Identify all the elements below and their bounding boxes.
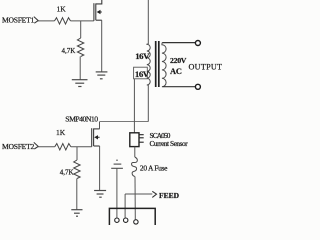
wire source2 down bbox=[99, 146, 101, 190]
wire R1 to gate bbox=[71, 20, 94, 22]
svg-text:FEED: FEED bbox=[159, 191, 180, 200]
input arrow MOSFET1 bbox=[34, 17, 38, 24]
svg-text:220V: 220V bbox=[170, 56, 187, 65]
wire fuse to connector bbox=[134, 177, 136, 220]
ground source1 bbox=[96, 72, 108, 79]
svg-text:SMP40N10: SMP40N10 bbox=[65, 115, 98, 124]
svg-text:MOSFET2: MOSFET2 bbox=[2, 142, 34, 151]
transformer core bbox=[155, 41, 157, 87]
terminal output bottom bbox=[195, 84, 200, 89]
terminal J1-2 bbox=[124, 218, 128, 222]
transformer T1 primary winding bbox=[147, 44, 150, 85]
wire gate2 bbox=[38, 146, 55, 148]
wire R4 to ground bbox=[76, 179, 78, 210]
fuse F1 bbox=[132, 157, 138, 177]
current sensor U2 SCA050 bbox=[130, 133, 139, 147]
svg-text:4,7K: 4,7K bbox=[60, 168, 74, 176]
wire junction to R2 bbox=[80, 21, 82, 38]
svg-text:1K: 1K bbox=[56, 128, 66, 137]
transformer T1 secondary winding bbox=[162, 43, 166, 87]
resistor R3 1K bbox=[55, 144, 71, 150]
resistor R2 4.7K bbox=[77, 38, 83, 57]
ground under R4 bbox=[71, 210, 82, 217]
transistor MOSFET1 bbox=[94, 0, 102, 21]
resistor R1 1K bbox=[55, 18, 71, 24]
ground source2 bbox=[94, 191, 106, 198]
wire transformer primary bottom to bus bbox=[147, 85, 149, 122]
wire R3 to gate bbox=[71, 146, 92, 148]
wire R2 to ground bbox=[79, 57, 81, 80]
wire gate1 bbox=[38, 20, 55, 22]
wire source1 down bbox=[101, 20, 103, 71]
connector J1 bbox=[109, 208, 155, 225]
ground under R2 bbox=[72, 80, 88, 87]
svg-text:20 A Fuse: 20 A Fuse bbox=[140, 164, 168, 173]
terminal output top bbox=[195, 41, 200, 46]
node FEED leader bbox=[125, 193, 152, 195]
svg-text:1K: 1K bbox=[57, 5, 67, 14]
svg-text:MOSFET1: MOSFET1 bbox=[2, 15, 34, 24]
svg-text:Current Sensor: Current Sensor bbox=[150, 139, 189, 148]
terminal J1-1 bbox=[115, 218, 119, 222]
wire transformer primary top feed bbox=[147, 0, 149, 44]
wire FEED down to connector bbox=[124, 194, 126, 218]
svg-text:16V: 16V bbox=[135, 69, 150, 79]
wire junction2 to R4 bbox=[76, 147, 78, 160]
ground (inverted, above connector) bbox=[111, 160, 123, 168]
svg-text:4,7K: 4,7K bbox=[62, 47, 76, 55]
resistor R4 4.7K bbox=[74, 160, 80, 179]
transistor MOSFET2 bbox=[92, 128, 100, 147]
svg-text:AC: AC bbox=[170, 67, 182, 76]
wire drain2 up bbox=[99, 122, 101, 129]
wire secondary bottom to terminal bbox=[163, 86, 196, 88]
arrow FEED bbox=[152, 191, 156, 197]
svg-text:OUTPUT: OUTPUT bbox=[189, 63, 223, 72]
svg-text:16V: 16V bbox=[135, 51, 150, 61]
wire drain bus bbox=[100, 121, 149, 123]
wire inverted ground to connector bbox=[116, 168, 118, 218]
input arrow MOSFET2 bbox=[34, 142, 38, 149]
callout box 16V (bottom) bbox=[134, 67, 148, 79]
terminal J1-3 bbox=[134, 220, 138, 224]
wire sensor to fuse bbox=[134, 147, 136, 157]
wire secondary top to terminal bbox=[163, 42, 196, 44]
wire center tap down bbox=[133, 79, 135, 133]
